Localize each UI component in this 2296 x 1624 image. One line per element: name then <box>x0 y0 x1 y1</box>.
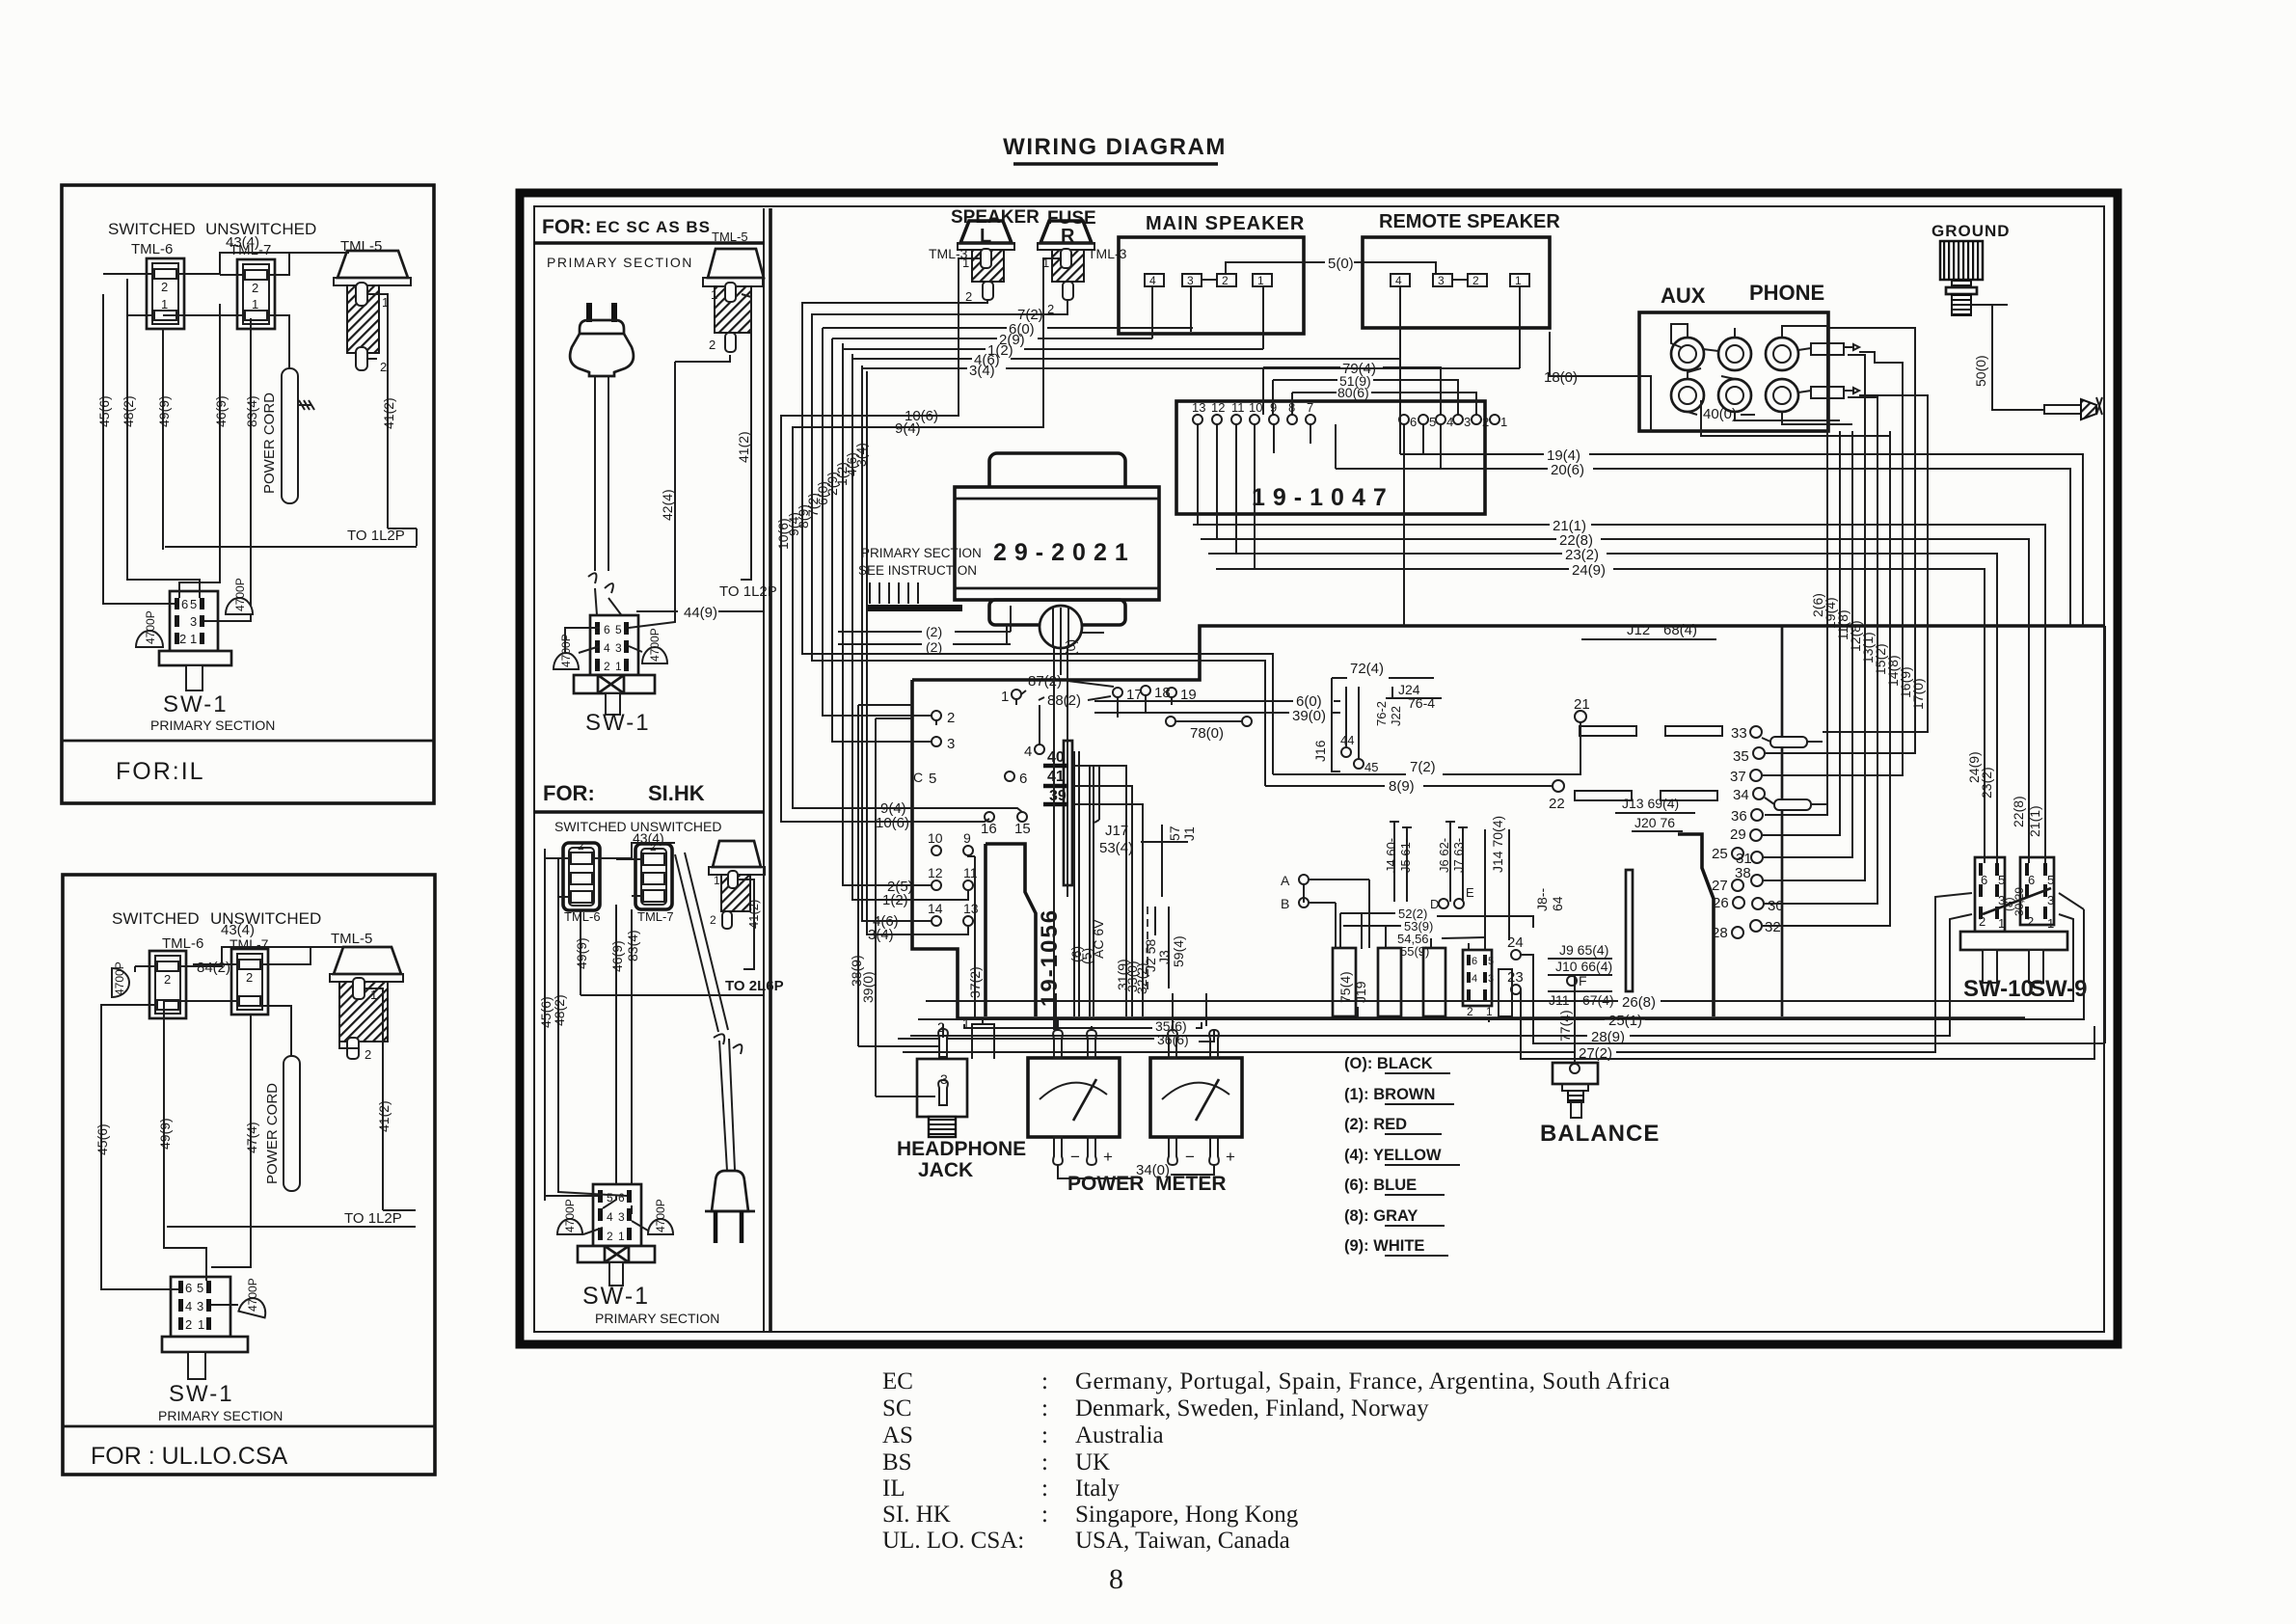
wire 45(6) <box>544 849 546 1201</box>
svg-text:24(9): 24(9) <box>1572 562 1606 579</box>
panel FOR:EC SC AS BS <box>534 208 777 1331</box>
svg-text:6: 6 <box>604 623 610 636</box>
svg-text:19-1047: 19-1047 <box>1252 484 1394 511</box>
wire TML5 pins <box>339 988 383 1056</box>
svg-text:4: 4 <box>607 1210 613 1224</box>
svg-text:PRIMARY SECTION: PRIMARY SECTION <box>861 546 982 560</box>
svg-text:HEADPHONE: HEADPHONE <box>897 1138 1026 1160</box>
pins 6..1 <box>1399 415 1409 424</box>
power cord twin lead <box>595 376 608 571</box>
wire to1l2p horizontal <box>165 546 417 548</box>
meter POWER left <box>1028 1030 1120 1166</box>
svg-text:Italy: Italy <box>1075 1475 1120 1502</box>
svg-text:40: 40 <box>1047 749 1065 766</box>
svg-text:1: 1 <box>615 660 622 673</box>
svg-text:72(4): 72(4) <box>1350 661 1384 677</box>
svg-text:45(6): 45(6) <box>95 1123 110 1155</box>
svg-text:3: 3 <box>1187 274 1194 287</box>
color legend <box>1344 1055 1460 1256</box>
svg-text:26(8): 26(8) <box>1622 994 1656 1011</box>
svg-text:J14 70(4): J14 70(4) <box>1490 816 1505 873</box>
svg-text:9(4): 9(4) <box>895 420 921 437</box>
svg-text:2: 2 <box>185 1317 192 1332</box>
svg-text:41(2): 41(2) <box>381 397 396 429</box>
svg-text:41: 41 <box>1047 769 1065 785</box>
svg-text:49(9): 49(9) <box>156 395 172 427</box>
svg-text:11: 11 <box>1231 400 1245 415</box>
svg-text:2: 2 <box>1979 914 1985 929</box>
svg-text:TML-3: TML-3 <box>1088 246 1127 261</box>
svg-text:5: 5 <box>1998 873 2005 887</box>
svg-text:4700P: 4700P <box>113 961 126 995</box>
box MAIN SPEAKER <box>1119 213 1305 349</box>
phone plug bottom <box>1798 387 1859 398</box>
svg-text:30: 30 <box>1768 898 1784 914</box>
wire 43(4) jumper <box>224 252 249 254</box>
svg-text:49(9): 49(9) <box>574 937 589 969</box>
svg-text:TML-5: TML-5 <box>331 931 372 947</box>
wires sw1 <box>565 617 675 653</box>
svg-text:PHONE: PHONE <box>1749 281 1824 305</box>
svg-text:4700P: 4700P <box>563 1199 577 1232</box>
svg-text:46(9): 46(9) <box>213 395 229 427</box>
PCB right-edge outline <box>1678 834 1714 1016</box>
svg-text:+: + <box>1103 1148 1113 1166</box>
wire 41(2) <box>382 1056 384 1210</box>
svg-text:TML-6: TML-6 <box>162 935 203 952</box>
svg-text:27: 27 <box>1712 878 1728 894</box>
svg-text:1: 1 <box>1486 1005 1493 1018</box>
wires into sw1 <box>545 1188 648 1234</box>
svg-text:87(2): 87(2) <box>1028 673 1062 690</box>
labels J4 60 J5 61 J6 62 J7 63 <box>1390 822 1468 902</box>
svg-text:2: 2 <box>604 660 610 673</box>
svg-text:80(6): 80(6) <box>1337 385 1369 400</box>
power cord <box>284 1056 300 1191</box>
meter METER right <box>1150 1030 1242 1166</box>
svg-text:49(9): 49(9) <box>157 1118 173 1150</box>
wire 49(9) <box>162 329 164 550</box>
svg-text:1: 1 <box>962 1015 970 1031</box>
svg-text:1: 1 <box>198 1317 204 1332</box>
svg-text:6: 6 <box>618 1191 625 1204</box>
svg-text:GROUND: GROUND <box>1931 222 2011 240</box>
wire 41(2) <box>387 357 389 528</box>
svg-text:D: D <box>1430 897 1439 911</box>
svg-text:45: 45 <box>1364 760 1378 774</box>
cord diagonal <box>675 853 728 1032</box>
svg-text:J17: J17 <box>1105 823 1128 839</box>
svg-text:TML-7: TML-7 <box>637 909 674 924</box>
svg-text:−: − <box>1070 1148 1080 1166</box>
capacitor 4700P right <box>642 647 667 663</box>
wire 42(4) <box>674 362 676 617</box>
wire 75(4) drop <box>1357 1007 1359 1018</box>
wires 24(9) 23(2) 22(8) 21(1) vertical <box>1984 571 1985 863</box>
svg-text:10: 10 <box>928 830 943 846</box>
svg-text:TML-5: TML-5 <box>712 230 748 244</box>
svg-text:84(2): 84(2) <box>197 960 230 976</box>
svg-text:2: 2 <box>179 632 186 646</box>
svg-text:2: 2 <box>965 289 972 304</box>
svg-text:4: 4 <box>1024 744 1032 760</box>
svg-text::: : <box>1041 1502 1048 1528</box>
svg-text:(9): WHITE: (9): WHITE <box>1344 1237 1424 1255</box>
svg-text:48(2): 48(2) <box>552 994 567 1026</box>
comb connector fingers <box>1333 948 1512 1016</box>
svg-text:Denmark, Sweden, Finland, N: Denmark, Sweden, Finland, Norway <box>1075 1395 1429 1421</box>
svg-text:50(0): 50(0) <box>1973 355 1988 387</box>
svg-text:5: 5 <box>929 771 936 787</box>
svg-text:6: 6 <box>1019 771 1027 787</box>
svg-text:39(0): 39(0) <box>1292 708 1326 724</box>
svg-text:BALANCE: BALANCE <box>1540 1121 1660 1147</box>
connector bar 40 41 39 <box>1043 741 1143 1016</box>
wire 18(0) long <box>1550 332 1589 376</box>
wires 26(8) 25(1) 28(9) 27(2) <box>903 893 2084 1062</box>
svg-text:J22: J22 <box>1389 706 1403 726</box>
svg-text:55(9): 55(9) <box>1400 944 1429 959</box>
svg-text:83(4): 83(4) <box>244 395 259 427</box>
capacitor 4700P left <box>136 631 163 647</box>
svg-text:17(0): 17(0) <box>1910 678 1926 710</box>
svg-text:4: 4 <box>1395 274 1402 287</box>
wire 48(2) <box>557 858 559 1188</box>
svg-text:1: 1 <box>1500 415 1507 429</box>
switch SW-9 <box>2020 857 2054 931</box>
svg-text:SW-1: SW-1 <box>169 1381 234 1407</box>
svg-text:TML-6: TML-6 <box>564 909 601 924</box>
wires into SW-1 <box>101 1244 251 1305</box>
svg-text:J19: J19 <box>1353 981 1368 1003</box>
svg-text:C: C <box>913 770 923 785</box>
aux bundle rotated labels <box>1810 593 1926 710</box>
internal wires <box>1671 324 1718 351</box>
wire TML5-2 <box>367 358 377 360</box>
plug TML-5 <box>713 841 761 867</box>
svg-text:SWITCHED: SWITCHED <box>112 909 200 928</box>
svg-text:26: 26 <box>1713 895 1729 911</box>
svg-text:33: 33 <box>1731 725 1747 742</box>
svg-text:J6 62-: J6 62- <box>1437 838 1451 873</box>
phone plug top <box>1798 343 1859 355</box>
svg-text:40(0): 40(0) <box>1703 406 1737 422</box>
sw diagonal link <box>1983 888 2051 914</box>
svg-text:25: 25 <box>1712 846 1728 862</box>
power cord <box>282 368 298 503</box>
svg-text:24: 24 <box>1507 934 1524 951</box>
svg-text:MAIN SPEAKER: MAIN SPEAKER <box>1146 213 1305 234</box>
resistor R via34 <box>1765 798 1774 804</box>
wire 72(4) bracket J16 <box>1312 661 1434 774</box>
svg-text:UK: UK <box>1075 1449 1110 1475</box>
vertical bar connector <box>1626 870 1633 991</box>
svg-text:EC: EC <box>882 1368 913 1394</box>
svg-text:3: 3 <box>947 736 955 752</box>
wires into SW-1 <box>103 547 251 621</box>
svg-text:FOR : UL.LO.CSA: FOR : UL.LO.CSA <box>91 1443 288 1470</box>
wire 41(2) <box>750 297 752 569</box>
svg-text:5(0): 5(0) <box>1328 256 1354 272</box>
svg-text:64: 64 <box>1550 896 1565 911</box>
ground screw <box>2044 405 2081 414</box>
svg-text:2: 2 <box>1222 274 1229 287</box>
svg-text:15: 15 <box>1014 821 1031 837</box>
fuse holder SPEAKER L <box>929 207 1040 304</box>
box AUX PHONE <box>1639 281 1859 431</box>
svg-text:3(4): 3(4) <box>969 363 995 379</box>
svg-text:SWITCHED: SWITCHED <box>108 220 196 238</box>
wire 77(4) row <box>1489 1018 1575 1022</box>
svg-text:6: 6 <box>2028 873 2035 887</box>
svg-text:5: 5 <box>1488 956 1494 967</box>
wire R fuse pin2 7(2) <box>812 300 1265 786</box>
svg-text:1: 1 <box>161 297 168 311</box>
wire 24 23 to pcb <box>1511 950 1521 960</box>
switch SW-10 <box>1975 857 2005 932</box>
svg-text:−: − <box>1185 1148 1195 1166</box>
connector TML-7 <box>635 844 672 909</box>
svg-text:8: 8 <box>1109 1563 1123 1595</box>
svg-text:45(6): 45(6) <box>96 395 112 427</box>
svg-text:21: 21 <box>1574 696 1590 713</box>
svg-text:TO 1L2P: TO 1L2P <box>347 528 405 544</box>
svg-text:J13 69(4): J13 69(4) <box>1622 796 1679 811</box>
fuse holder FUSE R <box>1038 208 1127 316</box>
wire 87 88 horizontals <box>936 695 1172 725</box>
svg-text:3: 3 <box>1488 973 1494 985</box>
pins 13..7 <box>1193 415 1202 424</box>
label 78(0) <box>1166 717 1175 726</box>
svg-text:12: 12 <box>928 865 943 880</box>
svg-text:REMOTE SPEAKER: REMOTE SPEAKER <box>1379 211 1560 232</box>
svg-text::: : <box>1041 1422 1048 1448</box>
svg-text:10: 10 <box>1249 400 1262 415</box>
svg-text:F: F <box>1579 973 1587 988</box>
wires pcb bottom to sw wires <box>968 855 975 1018</box>
svg-text:4: 4 <box>1149 274 1156 287</box>
svg-text:5: 5 <box>2047 873 2054 887</box>
svg-text:23: 23 <box>1507 969 1524 986</box>
svg-text:6: 6 <box>1472 956 1477 967</box>
svg-text:FOR:: FOR: <box>542 216 591 238</box>
switch SW-1 <box>170 591 218 651</box>
title WIRING DIAGRAM <box>1003 134 1227 164</box>
svg-text:1: 1 <box>252 297 258 311</box>
svg-text:25(1): 25(1) <box>1608 1013 1642 1029</box>
svg-text:2: 2 <box>246 970 253 985</box>
svg-text:IL: IL <box>882 1475 905 1502</box>
switch SW-1 <box>593 1184 641 1246</box>
svg-text:68(4): 68(4) <box>1663 622 1697 638</box>
svg-text:34(0): 34(0) <box>1136 1162 1170 1178</box>
wire 46(9) <box>219 304 221 579</box>
legend region codes text block <box>882 1368 1670 1554</box>
svg-text:J8--: J8-- <box>1534 888 1550 911</box>
svg-text:32: 32 <box>1765 919 1781 935</box>
svg-text:77(4): 77(4) <box>1557 1010 1573 1042</box>
svg-text:35: 35 <box>1733 748 1749 765</box>
wire TML5-1 to 41(2) <box>367 294 388 357</box>
wire horizontal <box>581 976 764 995</box>
svg-text:2: 2 <box>578 839 584 853</box>
svg-text:1: 1 <box>1257 274 1264 287</box>
wire 83(4) <box>631 909 633 1205</box>
svg-text:39(0): 39(0) <box>860 971 876 1003</box>
svg-text:41(2): 41(2) <box>736 431 751 463</box>
svg-text:30,29: 30,29 <box>2012 887 2026 916</box>
box REMOTE SPEAKER <box>1363 211 1560 454</box>
wires connector tops <box>545 843 675 897</box>
svg-text:4700P: 4700P <box>648 628 662 662</box>
svg-text:+: + <box>1226 1148 1235 1166</box>
wire 83(4) <box>250 318 252 617</box>
svg-text:29-2021: 29-2021 <box>993 539 1136 566</box>
svg-text:5: 5 <box>1429 415 1436 429</box>
svg-text:1: 1 <box>714 874 720 887</box>
svg-text:23(2): 23(2) <box>1565 547 1599 563</box>
svg-text:6: 6 <box>185 1281 192 1295</box>
svg-text:JACK: JACK <box>918 1159 973 1181</box>
svg-text:36: 36 <box>1731 808 1747 825</box>
svg-text:6: 6 <box>1981 873 1987 887</box>
wire heavy vertical 1848 <box>1781 626 1784 1016</box>
wire 52-55 steps <box>1340 885 1533 959</box>
svg-text:(1): BROWN: (1): BROWN <box>1344 1086 1435 1103</box>
svg-text:29: 29 <box>1730 826 1746 843</box>
svg-text:8(9): 8(9) <box>1389 778 1415 795</box>
plug body <box>719 1039 735 1171</box>
svg-text:E: E <box>1466 885 1474 900</box>
svg-text:78(0): 78(0) <box>1190 725 1224 742</box>
svg-text::: : <box>1041 1449 1048 1475</box>
wire aux bundle verticals <box>1762 328 1928 926</box>
svg-text:POWER CORD: POWER CORD <box>264 1083 281 1184</box>
capacitor 4700P right <box>226 598 253 614</box>
svg-text:(6): BLUE: (6): BLUE <box>1344 1177 1417 1194</box>
svg-text:J20 76: J20 76 <box>1634 815 1675 830</box>
svg-text:TML-7: TML-7 <box>230 242 271 258</box>
connector TML-6 <box>563 843 600 910</box>
svg-text:4700P: 4700P <box>144 610 157 644</box>
svg-text:1: 1 <box>190 632 197 646</box>
svg-text:J5 61-: J5 61- <box>1398 838 1413 873</box>
svg-text:22: 22 <box>1549 796 1565 812</box>
svg-text:J1: J1 <box>1181 826 1197 841</box>
svg-text:1: 1 <box>711 287 717 302</box>
svg-text:48(2): 48(2) <box>121 395 136 427</box>
svg-text:5: 5 <box>197 1281 203 1295</box>
box 19-1047 <box>1176 400 1507 514</box>
wire 3(4) <box>862 367 1520 369</box>
svg-text:2: 2 <box>164 972 171 987</box>
svg-text:5: 5 <box>190 597 197 611</box>
svg-text:1: 1 <box>1515 274 1522 287</box>
svg-text:AC 6V: AC 6V <box>1091 919 1106 959</box>
svg-text:20(6): 20(6) <box>1551 462 1584 478</box>
wires aux box top exits <box>1651 326 1890 436</box>
wire 1(2) <box>843 348 1263 350</box>
svg-text:39: 39 <box>1049 788 1067 804</box>
switch SW-1 <box>171 1277 230 1337</box>
svg-text:TO 1L2P: TO 1L2P <box>719 583 777 600</box>
svg-text:(O): BLACK: (O): BLACK <box>1344 1055 1433 1072</box>
svg-text:1: 1 <box>618 1230 625 1243</box>
svg-text:Germany, Portugal, Spain, F: Germany, Portugal, Spain, France, Argent… <box>1075 1368 1670 1394</box>
svg-text:SI.HK: SI.HK <box>648 781 705 805</box>
svg-text:SW-1: SW-1 <box>163 691 229 717</box>
svg-text:75(4): 75(4) <box>1337 971 1353 1003</box>
svg-text:9: 9 <box>963 830 971 846</box>
svg-text:FOR:IL: FOR:IL <box>116 758 205 785</box>
main box inner border <box>534 206 2104 1332</box>
wire 45(6) <box>100 1022 102 1286</box>
svg-text:1: 1 <box>2047 916 2054 931</box>
balance pot <box>1540 1063 1660 1147</box>
svg-text:UL. LO. CSA:: UL. LO. CSA: <box>882 1528 1024 1554</box>
panel divider vertical <box>769 208 772 1331</box>
svg-text:16: 16 <box>981 821 997 837</box>
svg-text:(8): GRAY: (8): GRAY <box>1344 1207 1418 1225</box>
svg-text:3: 3 <box>190 614 197 629</box>
svg-text:13: 13 <box>963 901 979 916</box>
svg-text:44: 44 <box>1340 733 1354 747</box>
svg-text:TML-6: TML-6 <box>131 241 173 257</box>
wires comb top connects <box>1340 913 1485 950</box>
capacitor 4700P top-left <box>112 968 129 997</box>
svg-text:BS: BS <box>882 1449 912 1475</box>
wire meter drops <box>1056 993 1206 1030</box>
svg-text:SW-10: SW-10 <box>1963 976 2034 1002</box>
switch SW-1 <box>590 615 638 675</box>
svg-text:2: 2 <box>709 338 716 352</box>
wires remote speaker drops <box>1335 424 1337 469</box>
svg-text:23(2): 23(2) <box>1979 767 1994 798</box>
svg-text:36(6): 36(6) <box>1157 1032 1189 1047</box>
svg-text:PRIMARY SECTION: PRIMARY SECTION <box>547 255 693 270</box>
svg-text:4700P: 4700P <box>246 1278 259 1312</box>
svg-text:J4 60-: J4 60- <box>1384 838 1398 873</box>
svg-text:PRIMARY SECTION: PRIMARY SECTION <box>150 717 275 733</box>
svg-text:PRIMARY SECTION: PRIMARY SECTION <box>595 1311 719 1326</box>
svg-text:3: 3 <box>1464 415 1471 429</box>
svg-text:4: 4 <box>604 641 610 655</box>
box FOR:IL <box>62 185 434 803</box>
svg-text:POWER CORD: POWER CORD <box>261 392 278 494</box>
svg-text:4: 4 <box>1472 973 1477 985</box>
wire 19-1047 pins down <box>1198 424 1255 569</box>
wires 79(4) 51(9) 80(6) above 19-1047 <box>1263 361 1476 415</box>
svg-text:4: 4 <box>185 1299 192 1313</box>
transformer 29-2021 <box>955 453 1159 648</box>
wire 4(6) <box>852 358 1400 360</box>
svg-text:SPEAKER: SPEAKER <box>951 207 1040 228</box>
svg-text:SI. HK: SI. HK <box>882 1502 951 1528</box>
svg-text:2: 2 <box>1472 274 1479 287</box>
svg-text:21(1): 21(1) <box>2027 805 2042 837</box>
wire 45(6) <box>102 294 104 600</box>
AC power plug <box>589 303 614 322</box>
jack circles <box>1671 338 1704 370</box>
right terminal column <box>1712 725 1826 941</box>
ground binding post <box>1931 222 2102 420</box>
svg-text:2: 2 <box>710 913 716 927</box>
svg-text:13: 13 <box>1192 400 1205 415</box>
svg-text:PRIMARY SECTION: PRIMARY SECTION <box>158 1408 283 1423</box>
svg-text:14: 14 <box>928 901 943 916</box>
svg-text:2: 2 <box>1482 415 1489 429</box>
wire TML5-2 to 42(4) <box>675 355 730 362</box>
